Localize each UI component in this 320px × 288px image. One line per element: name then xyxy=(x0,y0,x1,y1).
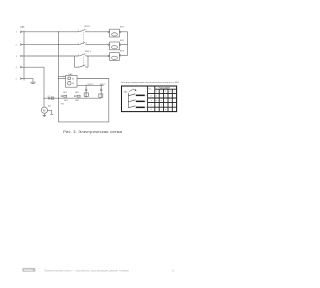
switch SA1 position digit 2 xyxy=(146,101,147,103)
contactor contact KM2.1 label xyxy=(85,51,92,53)
wire pin4 to motor branch xyxy=(24,67,44,98)
wire L1 to heater xyxy=(86,31,108,33)
wire control feed vertical xyxy=(57,32,59,98)
svg-text:Пол.: Пол. xyxy=(148,88,152,90)
pin 4 symbol xyxy=(20,66,24,68)
svg-text:х: х xyxy=(165,109,166,111)
coil box right branch xyxy=(99,94,103,97)
svg-text:5: 5 xyxy=(174,91,175,93)
wire bypass right drop xyxy=(86,56,88,67)
heater EK2 pin left xyxy=(108,44,109,45)
selector SA2 body xyxy=(66,75,77,87)
linkage dashed KM2 xyxy=(82,57,84,67)
connector XP1 label xyxy=(20,27,25,29)
wire collector of heaters xyxy=(127,32,129,56)
pin 3 label xyxy=(16,56,18,58)
junction L2 feed xyxy=(58,44,59,45)
coil KM2 label xyxy=(75,100,80,102)
selector SA2 label xyxy=(68,73,73,76)
thermal switch BK2 xyxy=(75,95,76,97)
contact KM2.1 on L3 xyxy=(79,54,86,56)
svg-text:6: 6 xyxy=(86,42,87,44)
switch SA1 blade 2 xyxy=(128,100,135,102)
switch SA1 bar 3 xyxy=(136,107,145,109)
wire motor tap xyxy=(43,98,45,107)
heater EK3 pin right xyxy=(120,55,121,56)
pin number 4 xyxy=(86,30,87,32)
svg-text:2: 2 xyxy=(161,91,162,93)
pin number 1 xyxy=(78,54,79,56)
lamp HL1 xyxy=(68,77,71,80)
svg-text:2: 2 xyxy=(86,54,87,56)
switch SA1 label xyxy=(124,90,129,93)
svg-text:1: 1 xyxy=(63,75,64,77)
wire EK3 to collector xyxy=(121,54,128,56)
svg-text:х: х xyxy=(165,95,166,97)
heater EK2 label xyxy=(120,40,125,42)
svg-text:0: 0 xyxy=(151,95,152,97)
svg-text:КМ2.1: КМ2.1 xyxy=(85,51,92,53)
thermal switch BK1 label xyxy=(63,92,67,94)
svg-text:Электрические плиты — устройст: Электрические плиты — устройство, эксплу… xyxy=(44,268,129,272)
svg-text:Рис. 3. Электрическая схема: Рис. 3. Электрическая схема xyxy=(63,129,122,134)
heater EK1 body xyxy=(110,29,120,37)
svg-text:4: 4 xyxy=(86,30,87,32)
svg-text:3: 3 xyxy=(78,30,79,32)
wire L3 to heater xyxy=(86,55,108,57)
contact KM3.1 bypass xyxy=(79,65,86,67)
svg-text:х: х xyxy=(174,105,175,107)
connector XP1 body (vertical bus) xyxy=(23,31,25,81)
wire bypass left drop xyxy=(75,56,79,67)
pin number 3 xyxy=(78,30,79,32)
switch SA1 position digit 1 xyxy=(146,95,147,97)
contact KM2.2 label xyxy=(100,84,107,86)
switch SA1 blade 3 xyxy=(128,106,135,108)
svg-text:КМ1.2: КМ1.2 xyxy=(88,84,95,86)
wire coil branch left xyxy=(85,85,87,98)
svg-text:ЛитМир: ЛитМир xyxy=(24,270,33,272)
switch SA1 bar 2 xyxy=(136,101,145,103)
pin number 6 xyxy=(86,42,87,44)
heater EK3 element xyxy=(112,56,118,59)
svg-text:х: х xyxy=(156,100,157,102)
capacitor C1 xyxy=(49,97,50,100)
pin 3 symbol xyxy=(20,55,24,57)
SA2 inner contacts xyxy=(72,78,74,84)
svg-text:1: 1 xyxy=(146,95,147,97)
heater EK2 body xyxy=(110,42,120,50)
wire L2 to heater xyxy=(86,44,108,46)
svg-text:КМ1.1: КМ1.1 xyxy=(84,26,91,28)
capacitor C1 label xyxy=(47,96,50,98)
contact KM1.2 on L2 xyxy=(79,42,86,44)
thermal switch BK2 label xyxy=(75,92,79,94)
switch SA1 stem xyxy=(127,93,129,108)
svg-text:4: 4 xyxy=(170,91,171,93)
junction coil branch left xyxy=(86,85,87,86)
pin 2 symbol xyxy=(20,44,24,46)
coil box left branch xyxy=(84,93,88,97)
switch SA1 blade 1 xyxy=(128,94,135,96)
wire bottom rail xyxy=(44,97,101,99)
heater EK3 label xyxy=(120,51,125,53)
heater EK1 pin right xyxy=(120,31,121,32)
wire pin5 to ground xyxy=(24,79,33,82)
contactor contact KM1.1 label xyxy=(84,26,91,28)
contact KM1.1 on L1 xyxy=(79,30,86,32)
lamp HL2 xyxy=(68,82,71,85)
svg-text:переключателя: переключателя xyxy=(160,88,170,90)
junction coil branch right xyxy=(101,85,102,86)
pin 1 symbol xyxy=(20,31,24,33)
linkage dashed KM1 xyxy=(82,32,84,44)
svg-text:9: 9 xyxy=(172,269,174,273)
svg-text:2: 2 xyxy=(146,101,147,103)
contact KM1.2 label xyxy=(88,84,95,86)
wire L1 left segment xyxy=(24,31,79,33)
switch SA1 position digit 3 xyxy=(146,107,147,109)
wire coil branch right xyxy=(100,85,102,98)
footer logo xyxy=(22,268,35,272)
svg-text:3: 3 xyxy=(146,107,147,109)
thermal switch BK1 xyxy=(61,95,62,97)
svg-text:1: 1 xyxy=(156,91,157,93)
svg-text:1: 1 xyxy=(78,54,79,56)
table header xyxy=(148,86,175,111)
wire motor capacitor branch xyxy=(48,110,54,114)
motor M1 body xyxy=(41,107,47,113)
heater EK1 label xyxy=(120,26,125,28)
svg-text:3: 3 xyxy=(151,109,152,111)
switch SA1 bar 1 xyxy=(136,95,145,97)
contact marks right branch xyxy=(100,89,102,90)
pin number 5 xyxy=(78,42,79,44)
switch SA1 rotary arrow xyxy=(129,90,136,92)
svg-text:3: 3 xyxy=(165,91,166,93)
junction rail pin4 xyxy=(43,98,44,99)
coil KM1 label xyxy=(64,100,69,102)
pin 1 label xyxy=(16,32,18,34)
motor ground stub xyxy=(43,113,46,116)
wire SA2 right upper to loop xyxy=(59,79,109,122)
svg-text:х: х xyxy=(156,95,157,97)
pin 5 symbol xyxy=(20,78,24,80)
legend box xyxy=(122,86,177,112)
heater EK1 pin left xyxy=(108,31,109,32)
svg-text:5: 5 xyxy=(78,42,79,44)
pin 5 label xyxy=(16,79,18,81)
svg-text:ХР1: ХР1 xyxy=(20,27,25,29)
heater EK1 element xyxy=(112,33,118,36)
relay KK1 label xyxy=(61,103,65,105)
ground xyxy=(30,82,36,83)
svg-text:2: 2 xyxy=(151,105,152,107)
wire EK2 to collector xyxy=(121,44,128,46)
contact marks left branch xyxy=(85,89,87,90)
wire SA2 right lower xyxy=(77,84,104,86)
motor M1 label xyxy=(48,106,52,108)
svg-text:Таблица коммутации переключате: Таблица коммутации переключателя мощност… xyxy=(121,81,180,84)
SA2 pin digit lower xyxy=(63,77,64,79)
wire EK1 to collector xyxy=(121,31,128,33)
SA2 pin digit upper xyxy=(63,75,64,77)
heater EK2 element xyxy=(112,46,118,49)
wire stub to SA2 upper xyxy=(58,75,65,77)
heater EK3 body xyxy=(110,53,120,61)
pin 2 label xyxy=(16,45,18,47)
heater EK2 pin right xyxy=(120,44,121,45)
wire L2 left segment xyxy=(24,44,79,46)
heater EK3 pin left xyxy=(108,55,109,56)
wire L3 left segment xyxy=(24,55,79,57)
junction SA2 stub xyxy=(58,78,59,79)
junction rail feed xyxy=(58,98,59,99)
wire stub to SA2 lower xyxy=(58,78,65,80)
pin 4 label xyxy=(16,67,18,69)
svg-text:1: 1 xyxy=(151,100,152,102)
junction L1 feed xyxy=(58,31,59,32)
table grid xyxy=(148,86,177,112)
pin number 2 xyxy=(86,54,87,56)
legend table title xyxy=(121,81,180,84)
